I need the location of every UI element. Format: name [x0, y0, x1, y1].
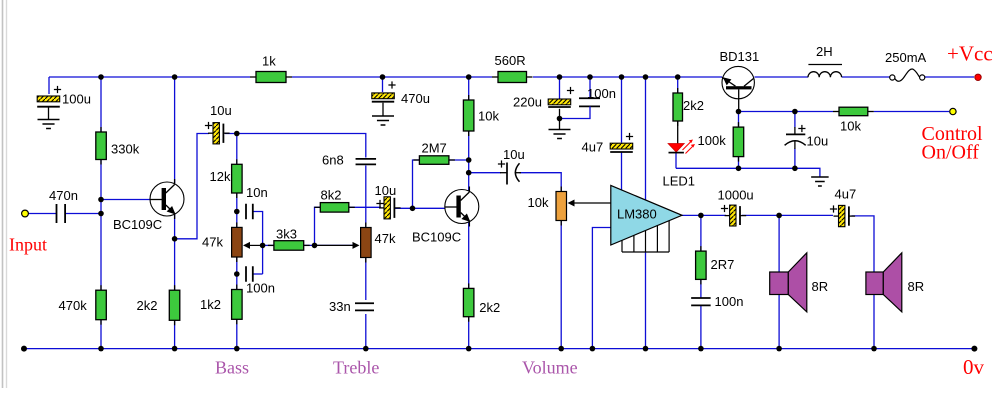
capacitor 100n bass: [246, 266, 253, 282]
svg-text:4u7: 4u7: [582, 140, 604, 155]
capacitor 100u plates: [37, 96, 60, 107]
svg-text:10k: 10k: [478, 109, 499, 124]
wire base node to 100k: [738, 112, 740, 128]
LED LED1: [668, 140, 695, 154]
speaker 8R right: [866, 253, 902, 312]
wire 330k branch: [100, 77, 102, 132]
node rail 100n: [587, 74, 593, 80]
wiper arrow bass: [243, 242, 263, 249]
node rail speaker2: [871, 346, 877, 352]
wire 10u to Q2 base: [395, 207, 445, 209]
svg-text:47k: 47k: [375, 231, 396, 246]
wire bass pot bottom: [236, 257, 238, 290]
wire 100u supply stub: [48, 77, 50, 94]
node rail 2k2 Q2: [466, 346, 472, 352]
svg-text:2M7: 2M7: [422, 141, 447, 156]
node 10u control bottom: [792, 166, 798, 172]
wire cap to base node: [66, 213, 102, 215]
svg-text:BC109C: BC109C: [113, 217, 162, 232]
plus 10u: [798, 125, 805, 132]
svg-text:10u: 10u: [807, 134, 829, 149]
wire treble pot to 33n: [365, 258, 367, 301]
svg-text:100n: 100n: [246, 281, 275, 296]
node Q1 base bias: [98, 197, 104, 203]
svg-text:10k: 10k: [528, 195, 549, 210]
resistor 8k2: [314, 203, 355, 213]
wire LM380 gnd pin to rail: [645, 252, 647, 349]
wire 4u7 to LM380 pin: [621, 152, 623, 191]
transistor BD131: [722, 66, 754, 111]
wire 100n right: [253, 273, 262, 275]
resistor 2M7: [413, 156, 455, 165]
resistor 12k: [232, 159, 243, 198]
plus 10u: [205, 122, 212, 129]
svg-text:BC109C: BC109C: [412, 230, 461, 245]
resistor 330k: [96, 127, 107, 165]
wire 2M7 right leg: [449, 159, 469, 161]
node BD131 base: [736, 109, 742, 115]
capacitor 10u coupling1: [208, 123, 230, 144]
node Q2 coupling: [466, 170, 472, 176]
svg-text:10k: 10k: [840, 119, 861, 134]
svg-text:10u: 10u: [210, 103, 232, 118]
wire Q1 emitter to feedback: [175, 134, 209, 239]
node rail 4u7: [619, 74, 625, 80]
wire 100n supply stub: [589, 77, 591, 98]
wire 470u stub: [382, 77, 384, 92]
capacitor 10u treble out: [379, 197, 401, 219]
wire 1k2 to rail: [236, 319, 238, 348]
resistor 10k Q2 collector: [463, 95, 474, 136]
wire inductor to fuse: [842, 76, 890, 78]
svg-text:220u: 220u: [513, 95, 542, 110]
wire base bias chain: [100, 160, 102, 291]
svg-text:2R7: 2R7: [711, 257, 735, 272]
wire top rail segment C: [533, 76, 722, 78]
wire 2k2 LED stub: [677, 77, 679, 93]
node rail 470u: [380, 74, 386, 80]
ground control: [811, 177, 829, 186]
wire top rail segment B: [292, 76, 492, 78]
wire Q2 emitter down: [468, 222, 470, 288]
wire fuse to +Vcc terminal: [925, 76, 974, 78]
op-amp U1 LM380: [611, 185, 682, 252]
node LM380 output: [698, 213, 704, 219]
capacitor 4u7 speaker2: [834, 205, 856, 226]
svg-text:BD131: BD131: [720, 49, 760, 64]
wire 4u7 to speaker2: [852, 216, 875, 272]
svg-text:2k2: 2k2: [683, 98, 704, 113]
svg-text:470k: 470k: [59, 298, 88, 313]
wire 33n to rail: [365, 314, 367, 349]
wire Q2 collector chain: [468, 131, 470, 192]
wire top rail segment A: [49, 76, 250, 78]
wire 8k2 to 10u cap: [349, 206, 381, 208]
svg-text:12k: 12k: [210, 169, 231, 184]
capacitor 100n supply: [579, 98, 600, 106]
resistor 2k2 Q2 emitter: [463, 283, 474, 321]
resistor 2R7: [696, 246, 707, 284]
svg-text:33n: 33n: [329, 299, 351, 314]
terminal control: [950, 108, 956, 114]
node 2M7 collector: [466, 157, 472, 163]
svg-text:2H: 2H: [816, 44, 833, 59]
potentiometer 10k volume: [556, 187, 567, 226]
wire treble node up to 8k2: [315, 207, 321, 245]
transistor Q2 BC109C: [445, 187, 479, 227]
capacitor 1000u output: [725, 205, 747, 226]
svg-text:1000u: 1000u: [718, 188, 754, 203]
plus 220u: [567, 87, 574, 94]
svg-text:8k2: 8k2: [321, 188, 342, 203]
wire 2k2 Q2 to rail: [468, 317, 470, 349]
node Q2 base: [410, 206, 416, 212]
wire 100n to rail: [700, 306, 702, 349]
terminal 0v right: [971, 346, 977, 352]
node bass bottom: [234, 271, 240, 277]
wire Q1 collector: [174, 77, 176, 183]
wire speaker1 to rail: [778, 295, 780, 349]
capacitor 33n: [355, 303, 374, 310]
capacitor 10n: [246, 204, 253, 220]
node rail LM380 in: [590, 346, 596, 352]
plus 10u: [498, 160, 505, 167]
svg-text:LED1: LED1: [663, 174, 696, 189]
svg-text:4u7: 4u7: [835, 187, 857, 202]
capacitor 100n output: [691, 298, 711, 305]
node rail LM380 Vs: [643, 74, 649, 80]
wire 470u gnd stub: [382, 103, 384, 116]
wiper arrow treble: [315, 242, 360, 249]
fuse 250mA: [890, 69, 925, 81]
svg-text:8R: 8R: [908, 279, 925, 294]
wire 2M7 left leg: [413, 160, 420, 208]
node 10u control top: [792, 109, 798, 115]
wire speaker2 to rail: [873, 295, 875, 349]
terminal 0v left: [21, 346, 27, 352]
resistor 100k: [733, 122, 744, 162]
node rail 33n: [363, 346, 369, 352]
svg-text:10u: 10u: [503, 147, 525, 162]
wire 12k to 10n node: [236, 193, 238, 227]
node 220u 100n gnd: [557, 116, 563, 122]
wire BD131 collector to inductor: [755, 76, 809, 78]
node rail speaker1: [776, 346, 782, 352]
wire LM380 Vs pin: [645, 77, 647, 200]
wire 4u7 supply stub: [621, 77, 623, 143]
resistor 2k2 LED: [673, 88, 683, 126]
node 100k bottom: [736, 166, 742, 172]
svg-text:+Vcc: +Vcc: [947, 42, 993, 66]
plus 4u7: [830, 205, 837, 212]
wire LM380 inverting input: [592, 228, 610, 349]
svg-text:6n8: 6n8: [322, 153, 344, 168]
wire 1000u to speaker1: [742, 214, 779, 216]
node rail 220u: [557, 74, 563, 80]
svg-text:330k: 330k: [111, 142, 140, 157]
svg-text:100n: 100n: [587, 86, 616, 101]
svg-text:3k3: 3k3: [276, 227, 297, 242]
wire wiper rail lower: [262, 245, 264, 274]
wire 3k3 left: [263, 244, 274, 246]
ground under 220u: [549, 130, 571, 139]
wire output to 2R7: [700, 215, 702, 251]
capacitor 10u control: [785, 127, 806, 149]
node rail Q1 collector: [172, 74, 178, 80]
node 12k 10n: [234, 209, 240, 215]
wire speaker1 node to 4u7: [779, 214, 833, 216]
resistor 2k2 Q1 emitter: [169, 285, 180, 325]
wire 10u out to pot: [520, 173, 562, 192]
wire 100k to gnd row: [738, 157, 740, 169]
svg-text:470n: 470n: [49, 188, 78, 203]
node rail LM380 gnd: [643, 346, 649, 352]
wire LED cathode: [675, 153, 677, 169]
node speaker1 top: [776, 213, 782, 219]
node treble wiper: [312, 243, 318, 249]
svg-text:Input: Input: [9, 235, 47, 255]
capacitor 220u plates: [548, 99, 571, 107]
capacitor 470u plates: [372, 93, 395, 102]
plus 1000u: [721, 205, 728, 212]
node rail volume: [558, 346, 564, 352]
capacitor 4u7 supply plates: [610, 143, 633, 152]
terminal input: [22, 210, 29, 217]
potentiometer 47k treble: [361, 223, 372, 263]
wire 10k to control terminal: [874, 111, 949, 113]
node rail 470k: [98, 346, 104, 352]
terminal input outline: [22, 210, 29, 217]
resistor 1k2: [232, 285, 243, 325]
resistor 560R: [492, 72, 533, 83]
plus 4u7: [626, 133, 633, 140]
svg-text:100k: 100k: [698, 133, 727, 148]
svg-text:8R: 8R: [812, 279, 829, 294]
wire 10u3 stub top: [794, 112, 796, 128]
svg-text:100u: 100u: [62, 92, 91, 107]
node input: [98, 211, 104, 217]
terminal control outline: [950, 108, 956, 114]
wire volume pot to rail: [560, 221, 562, 349]
svg-text:10u: 10u: [375, 183, 397, 198]
wire 2k2 Q1 to rail: [174, 320, 176, 348]
wire gnd row: [676, 168, 820, 177]
wire 470k to rail: [100, 320, 102, 349]
node rail 10k: [466, 74, 472, 80]
wire 12k chain: [236, 134, 238, 165]
wire 220u gnd stub: [559, 109, 561, 130]
window border left: [3, 0, 7, 388]
wire 220u stub: [559, 77, 561, 99]
wire 10k collector branch: [468, 77, 470, 100]
wire 10u3 stub bottom: [794, 149, 796, 169]
wire speaker1 drop: [778, 215, 780, 272]
svg-text:250mA: 250mA: [885, 50, 927, 65]
speaker 8R left: [770, 253, 807, 312]
ground under 100u: [38, 120, 60, 129]
resistor 10k control: [833, 107, 874, 116]
svg-text:0v: 0v: [963, 355, 985, 379]
wire LM380 output: [682, 214, 726, 216]
wire 2R7 to 100n: [700, 279, 702, 298]
svg-text:2k2: 2k2: [137, 298, 158, 313]
resistor 470k: [96, 285, 107, 325]
wire 100u gnd stub: [48, 108, 50, 120]
svg-text:Bass: Bass: [215, 358, 249, 378]
wire LED anode: [677, 121, 679, 144]
wire 3k3 to treble node: [304, 244, 355, 246]
plus 470u: [388, 81, 395, 88]
node feedback 10u: [234, 131, 240, 137]
resistor 3k3: [268, 241, 310, 251]
wire BD131 base node row: [739, 111, 834, 113]
svg-text:470u: 470u: [401, 91, 430, 106]
transistor Q1 BC109C: [150, 179, 184, 219]
wire 6n8 to treble pot: [365, 166, 367, 228]
resistor 1k: [250, 72, 292, 83]
svg-text:Volume: Volume: [522, 358, 578, 378]
node rail 330k: [98, 74, 104, 80]
svg-text:1k2: 1k2: [200, 297, 221, 312]
terminal +Vcc: [975, 74, 981, 80]
capacitor 470n: [57, 204, 66, 223]
svg-text:2k2: 2k2: [479, 300, 500, 315]
wire 10n right: [253, 212, 262, 246]
svg-text:Treble: Treble: [333, 358, 379, 378]
plus 10u: [376, 200, 383, 207]
svg-text:LM380: LM380: [617, 207, 657, 222]
svg-text:100n: 100n: [715, 294, 744, 309]
potentiometer 47k bass: [232, 222, 243, 262]
node bass wiper: [260, 243, 266, 249]
node Q1 emitter: [172, 236, 178, 242]
node rail 2k2 LED: [675, 74, 681, 80]
wire bottom rail: [24, 348, 974, 350]
wire 100n bottom leg: [560, 106, 591, 118]
node rail 100n out: [698, 346, 704, 352]
svg-text:47k: 47k: [202, 235, 223, 250]
inductor 2H: [808, 65, 842, 78]
node rail 2k2 Q1: [172, 346, 178, 352]
wire Q2 coupling tap: [469, 172, 501, 174]
plus 100u: [54, 86, 61, 93]
svg-text:On/Off: On/Off: [922, 142, 980, 164]
ground under 470u: [372, 116, 394, 125]
svg-text:10n: 10n: [246, 185, 268, 200]
wire Q1 emitter down: [174, 214, 176, 290]
node rail 1k2: [234, 346, 240, 352]
capacitor 10u to volume pot: [500, 163, 521, 185]
svg-text:1k: 1k: [262, 54, 276, 69]
svg-text:560R: 560R: [495, 53, 526, 68]
terminal +Vcc outline: [975, 74, 981, 80]
wire Q1 base: [101, 199, 152, 201]
wire 10u to tone node: [225, 134, 366, 158]
wire input to cap: [28, 213, 56, 215]
capacitor 6n8: [356, 159, 377, 165]
wiper arrow volume: [568, 200, 611, 207]
